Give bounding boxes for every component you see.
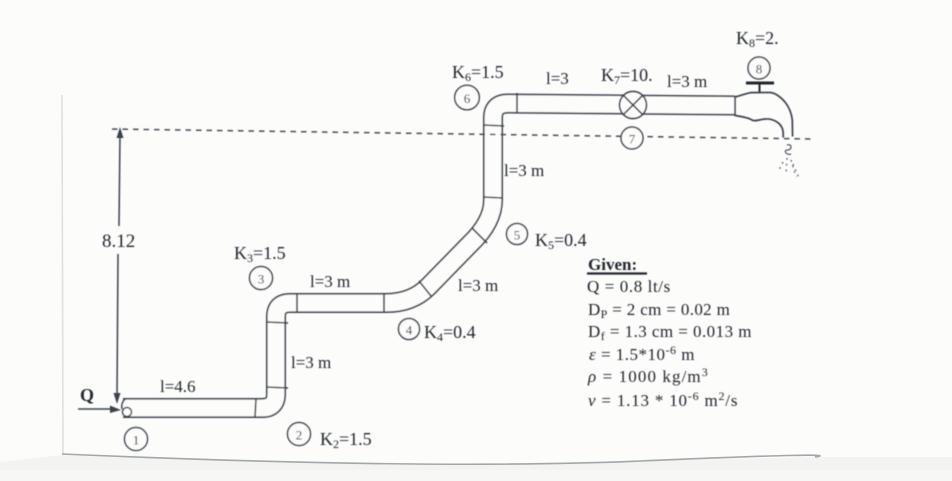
svg-text:l=3 m: l=3 m: [291, 353, 331, 372]
svg-text:l=3 m: l=3 m: [458, 276, 498, 295]
faucet body outline: [735, 93, 793, 138]
svg-text:4: 4: [406, 323, 413, 338]
page left edge line: [62, 95, 63, 455]
svg-text:5: 5: [514, 228, 521, 243]
node 3 circle: [250, 267, 273, 290]
joint tick on diagonal pipe upper: [472, 228, 487, 243]
water spray dotted lines: [778, 158, 799, 178]
joint tick at faucet inlet: [734, 96, 736, 116]
pipe inlet end cap: [122, 399, 125, 409]
node 8 circle: [748, 57, 770, 79]
joint tick on vertical pipe 2-3 lower: [266, 387, 288, 388]
node 4 circle: [399, 319, 420, 340]
svg-text:Q: Q: [80, 385, 94, 405]
joint tick on diagonal pipe lower: [419, 281, 431, 296]
svg-text:l=3: l=3: [546, 69, 569, 88]
dimension line upper segment with up arrow: [119, 133, 120, 226]
svg-text:ε = 1.5*10-6 m: ε = 1.5*10-6 m: [589, 343, 695, 364]
svg-text:Q = 0.8 lt/s: Q = 0.8 lt/s: [587, 277, 671, 296]
Q flow arrow: [78, 408, 114, 410]
page bottom region below scan edge: [0, 455, 952, 481]
svg-text:K8=2.: K8=2.: [736, 28, 779, 50]
svg-text:K5=0.4: K5=0.4: [535, 230, 587, 252]
svg-text:1: 1: [133, 433, 140, 448]
bottom light strip: [0, 470, 952, 481]
datum dashed line: [112, 129, 813, 139]
svg-text:3: 3: [258, 272, 265, 287]
svg-text:8.12: 8.12: [102, 231, 135, 252]
svg-text:2: 2: [296, 428, 303, 443]
svg-text:7: 7: [629, 132, 636, 147]
svg-text:ν = 1.13 * 10-6 m2/s: ν = 1.13 * 10-6 m2/s: [588, 389, 738, 410]
joint tick at elbow 2 (horizontal side): [255, 399, 256, 417]
svg-text:8: 8: [756, 62, 763, 77]
svg-text:K7=10.: K7=10.: [601, 65, 653, 87]
svg-text:K6=1.5: K6=1.5: [452, 62, 504, 84]
node 7 circle: [621, 127, 643, 149]
svg-text:6: 6: [464, 91, 471, 106]
valve K7 symbol: [620, 92, 647, 119]
svg-text:K4=0.4: K4=0.4: [424, 322, 476, 344]
joint tick on vertical pipe 2-3 upper: [267, 322, 288, 323]
pipe inlet small loop: [123, 408, 132, 417]
svg-text:ρ = 1000 kg/m3: ρ = 1000 kg/m3: [587, 365, 709, 386]
node 6 circle: [455, 85, 480, 110]
joint tick right of elbow 6: [516, 93, 518, 113]
joint tick on vertical pipe 5-6 lower: [483, 197, 503, 198]
pipe main run (outer outline): [123, 104, 735, 409]
joint tick before elbow 4: [383, 294, 385, 312]
dimension line lower segment with down arrow: [117, 254, 118, 398]
faucet handle stem: [759, 84, 761, 92]
svg-text:l=3 m: l=3 m: [310, 272, 350, 291]
Given heading underline: [587, 272, 647, 274]
svg-text:K3=1.5: K3=1.5: [234, 243, 286, 265]
svg-text:l=3 m: l=3 m: [504, 161, 544, 180]
node 5 circle: [507, 224, 528, 245]
svg-text:l=4.6: l=4.6: [160, 377, 196, 396]
svg-text:Given:: Given:: [588, 255, 637, 274]
water squiggle at spout: [785, 145, 791, 155]
svg-text:l=3 m: l=3 m: [667, 72, 707, 91]
pipe main run (inner white): [123, 104, 735, 409]
joint tick below elbow 6: [484, 125, 504, 126]
node 2 circle: [288, 423, 311, 446]
svg-text:Df = 1.3 cm = 0.013 m: Df = 1.3 cm = 0.013 m: [588, 322, 752, 343]
node 1 circle: [125, 428, 148, 451]
svg-text:K2=1.5: K2=1.5: [320, 429, 372, 451]
page bottom curved edge: [62, 454, 820, 464]
svg-text:DP = 2 cm = 0.02 m: DP = 2 cm = 0.02 m: [588, 300, 730, 321]
faucet handle T-bar: [746, 82, 774, 85]
joint tick at elbow 3 exit: [296, 294, 298, 312]
